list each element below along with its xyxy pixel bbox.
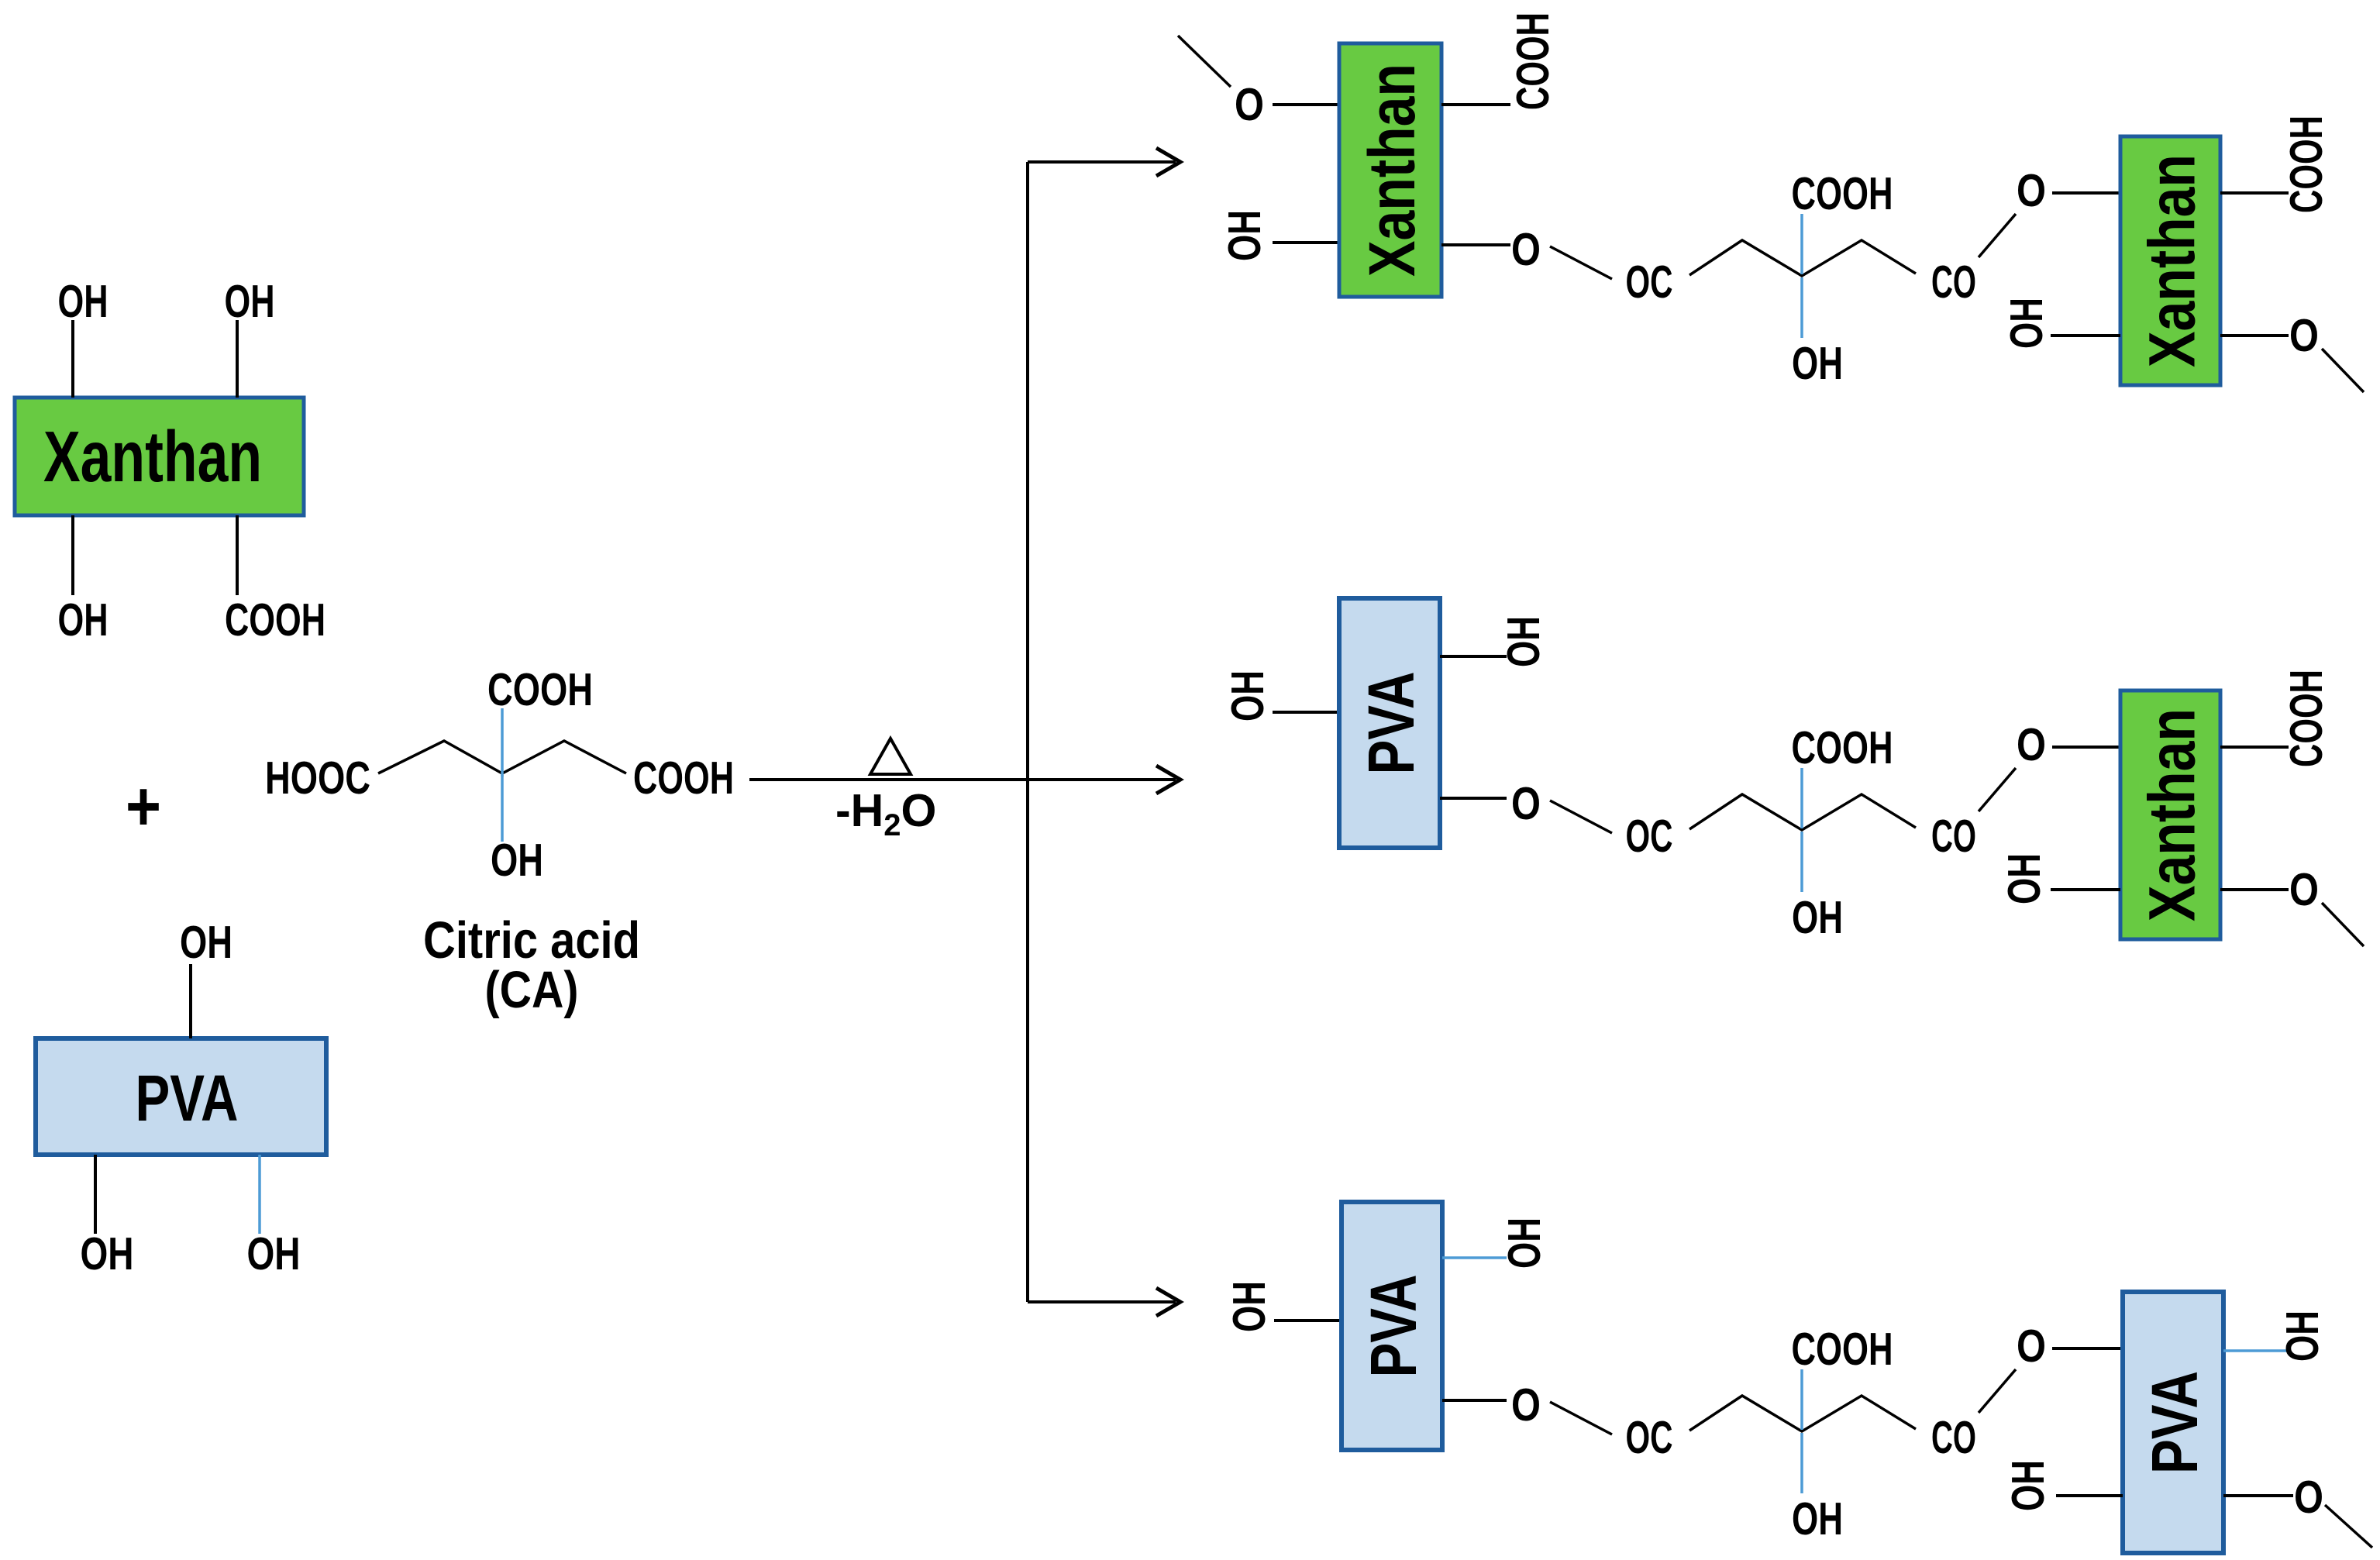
product box PVA (row3 left) xyxy=(1342,1202,1442,1450)
svg-text:Xanthan: Xanthan xyxy=(2136,708,2209,921)
svg-text:COOH: COOH xyxy=(2281,670,2332,767)
svg-text:Xanthan: Xanthan xyxy=(43,416,262,497)
chain continuation diagonal top-left (row1) xyxy=(1178,36,1231,87)
bond O to OC (row3) xyxy=(1550,1402,1612,1434)
svg-text:OH: OH xyxy=(2001,298,2052,349)
bond Xanthan box to COOH bottom-right xyxy=(236,515,239,595)
bond central C to COOH (row2) xyxy=(1800,768,1803,828)
svg-text:PVA: PVA xyxy=(136,1062,239,1135)
svg-text:PVA: PVA xyxy=(1357,1275,1430,1378)
svg-text:O: O xyxy=(1511,1379,1541,1431)
bond O to OC (row2) xyxy=(1550,801,1612,833)
svg-text:OC: OC xyxy=(1626,1412,1673,1463)
svg-text:OH: OH xyxy=(81,1228,134,1279)
svg-text:O: O xyxy=(1511,224,1541,275)
svg-text:O: O xyxy=(2289,310,2319,361)
svg-text:OH: OH xyxy=(1999,853,2050,904)
citric chain zigzag (row3) xyxy=(1689,1396,1916,1431)
chain continuation diagonal bottom-right (row1) xyxy=(2322,349,2364,392)
svg-text:PVA: PVA xyxy=(2138,1371,2211,1474)
bond O to left box top (row1) xyxy=(1273,103,1339,106)
product box PVA (row2 left) xyxy=(1339,598,1440,848)
bond CO to ester O (row2) xyxy=(1979,768,2016,811)
product box Xanthan (row1 right) xyxy=(2120,136,2220,385)
svg-text:OH: OH xyxy=(1792,338,1843,389)
bond O to right box (row2) xyxy=(2052,746,2120,749)
svg-text:OH: OH xyxy=(58,276,108,327)
bond right box to COOH (row1) xyxy=(2220,191,2289,195)
bond central C to OH (row1) xyxy=(1800,277,1803,338)
bond OH to left box (row1) xyxy=(1273,241,1339,244)
svg-text:O: O xyxy=(2017,719,2046,770)
svg-text:COOH: COOH xyxy=(1792,722,1893,773)
bond central C to COOH top (citric acid) xyxy=(501,708,504,777)
citric chain zigzag (row2) xyxy=(1689,794,1916,830)
bond left box to COOH (row1) xyxy=(1441,103,1510,106)
bond left box to OH top-right blue (row3) xyxy=(1442,1256,1507,1259)
svg-text:O: O xyxy=(2289,864,2319,915)
chain continuation diagonal bottom-right (row2) xyxy=(2322,903,2364,946)
reactant box Xanthan xyxy=(15,398,304,515)
svg-text:OH: OH xyxy=(1499,1217,1550,1269)
bond PVA box to OH bottom-right (blue) xyxy=(258,1155,261,1234)
bottom branch arrow line xyxy=(1028,1300,1176,1303)
bond central C to COOH (row1) xyxy=(1800,214,1803,274)
svg-text:OH: OH xyxy=(1792,1493,1843,1545)
bond right box to COOH (row2) xyxy=(2220,746,2289,749)
bond CO to ester O (row3) xyxy=(1979,1369,2016,1413)
chain continuation diagonal bottom-right (row3) xyxy=(2325,1505,2372,1548)
svg-text:+: + xyxy=(126,768,161,845)
bond central C to OH (row3) xyxy=(1800,1433,1803,1493)
citric acid carbon chain xyxy=(378,741,626,773)
bond right box to ester O lower (row2) xyxy=(2220,888,2289,891)
bond OH to right box (row2) xyxy=(2051,888,2120,891)
svg-text:COOH: COOH xyxy=(1792,168,1893,219)
bond central C to OH (row2) xyxy=(1800,832,1803,892)
svg-text:OH: OH xyxy=(58,594,108,646)
bond OH to left box (row2) xyxy=(1273,711,1339,714)
main reaction arrow line xyxy=(749,778,1176,781)
bond left box to ester O (row1) xyxy=(1441,243,1510,246)
svg-text:OH: OH xyxy=(1222,670,1273,721)
bond OH-top-right to Xanthan box xyxy=(236,320,239,398)
bond central C to OH bottom (citric acid) xyxy=(501,775,504,842)
svg-text:COOH: COOH xyxy=(633,752,734,804)
svg-text:OC: OC xyxy=(1626,257,1673,308)
bond O to right box (row3) xyxy=(2052,1347,2120,1350)
svg-text:O: O xyxy=(1511,778,1541,829)
svg-text:Xanthan: Xanthan xyxy=(1355,64,1428,277)
svg-text:CO: CO xyxy=(1931,257,1976,308)
svg-text:OH: OH xyxy=(1219,210,1270,261)
svg-text:OH: OH xyxy=(1792,892,1843,943)
bond right box to ester O lower (row3) xyxy=(2223,1494,2293,1497)
svg-text:OH: OH xyxy=(491,835,543,886)
svg-text:O: O xyxy=(2017,1321,2046,1372)
bond left box to ester O (row2) xyxy=(1440,797,1507,800)
svg-text:Xanthan: Xanthan xyxy=(2136,154,2209,367)
svg-text:CO: CO xyxy=(1931,811,1976,862)
svg-text:COOH: COOH xyxy=(487,664,593,715)
bond left box to OH top-right (row2) xyxy=(1440,655,1507,658)
svg-text:HOOC: HOOC xyxy=(265,752,370,804)
svg-text:OH: OH xyxy=(1224,1281,1275,1332)
svg-text:OH: OH xyxy=(180,917,232,968)
svg-text:COOH: COOH xyxy=(1792,1324,1893,1375)
bond Xanthan box to OH bottom-left xyxy=(71,515,74,595)
product box Xanthan (row2 right) xyxy=(2120,690,2220,939)
svg-text:O: O xyxy=(2017,165,2046,216)
bond OH-top to PVA box xyxy=(189,964,192,1038)
svg-text:(CA): (CA) xyxy=(485,961,579,1019)
main reaction arrowhead xyxy=(1156,766,1180,794)
svg-text:COOH: COOH xyxy=(225,594,325,646)
svg-text:COOH: COOH xyxy=(2281,115,2332,213)
branch vertical line xyxy=(1026,162,1029,1302)
bond O to right box (row1) xyxy=(2052,191,2120,195)
svg-text:CO: CO xyxy=(1931,1412,1976,1463)
svg-text:PVA: PVA xyxy=(1355,672,1428,775)
product box PVA (row3 right) xyxy=(2123,1292,2223,1553)
svg-text:O: O xyxy=(1235,79,1264,130)
bond left box to ester O (row3) xyxy=(1442,1399,1507,1402)
svg-text:OH: OH xyxy=(225,276,275,327)
top branch arrow line xyxy=(1028,160,1176,164)
product box Xanthan (row1 left) xyxy=(1339,43,1441,297)
top branch arrowhead xyxy=(1156,148,1180,176)
svg-text:OH: OH xyxy=(1498,616,1549,667)
heat triangle symbol xyxy=(870,739,911,774)
svg-text:OH: OH xyxy=(2277,1310,2328,1362)
bottom branch arrowhead xyxy=(1156,1288,1180,1316)
bond right box to OH top-right blue (row3) xyxy=(2223,1349,2288,1352)
svg-text:OH: OH xyxy=(2003,1460,2054,1511)
bond PVA box to OH bottom-left xyxy=(94,1155,97,1234)
citric chain zigzag (row1) xyxy=(1689,240,1916,276)
bond OH to right box (row1) xyxy=(2051,334,2120,337)
bond right box to ester O lower (row1) xyxy=(2220,334,2289,337)
bond central C to COOH (row3) xyxy=(1800,1369,1803,1430)
reactant box PVA xyxy=(36,1038,326,1155)
bond OH-top-left to Xanthan box xyxy=(71,320,74,398)
svg-text:COOH: COOH xyxy=(1507,12,1559,110)
bond OH to left box (row3) xyxy=(1274,1319,1342,1322)
bond OH to right box (row3) xyxy=(2056,1494,2123,1497)
svg-text:OC: OC xyxy=(1626,811,1673,862)
svg-text:O: O xyxy=(2294,1472,2323,1523)
svg-text:-H2O: -H2O xyxy=(835,785,936,842)
svg-text:OH: OH xyxy=(247,1228,301,1279)
bond CO to ester O (row1) xyxy=(1979,214,2016,257)
bond O to OC (row1) xyxy=(1550,246,1612,279)
